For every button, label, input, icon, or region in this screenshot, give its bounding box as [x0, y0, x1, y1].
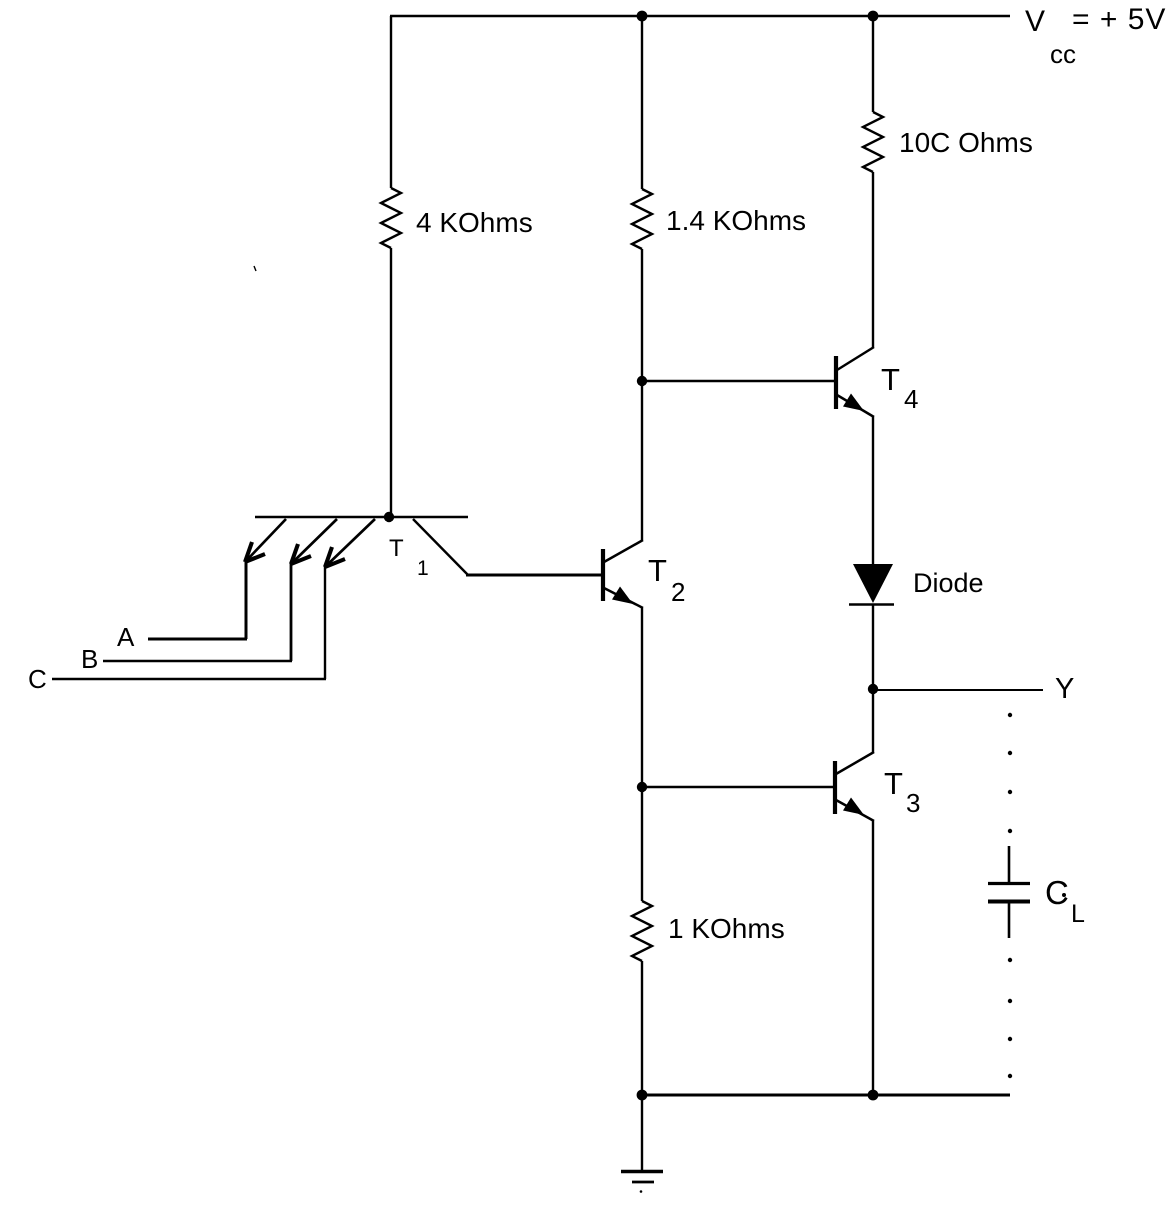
junction bottom rail / right column	[868, 1090, 879, 1101]
junction top rail / right column	[868, 11, 879, 22]
svg-text:B: B	[81, 644, 98, 674]
svg-text:T: T	[881, 362, 900, 397]
wire T3 emitter to bottom rail	[872, 821, 874, 1095]
ground	[621, 1095, 663, 1193]
wire middle column upper	[641, 16, 643, 189]
wire middle column to T2 collector	[641, 249, 643, 540]
svg-text:V: V	[1025, 5, 1045, 38]
resistor R4 1 KOhms	[632, 901, 652, 961]
resistor R2 1.4 KOhms	[632, 189, 652, 249]
resistor R1 4 KOhms	[381, 188, 401, 248]
wire T4 emitter to diode	[872, 417, 874, 565]
svg-text:Diode: Diode	[913, 568, 984, 598]
wire left column upper	[390, 16, 392, 188]
transistor T3	[835, 752, 920, 821]
svg-text:A: A	[117, 622, 135, 652]
svg-text:Y: Y	[1055, 673, 1074, 705]
svg-text:T: T	[648, 553, 667, 588]
svg-text:L: L	[1071, 900, 1085, 928]
wire right column to T4 collector	[872, 172, 874, 347]
svg-text:= + 5V: = + 5V	[1072, 3, 1166, 36]
svg-text:1: 1	[417, 557, 429, 580]
wire middle column T2 emitter down	[641, 608, 643, 901]
junction middle column / T4 base	[637, 376, 647, 386]
capacitor CL dotted connection lower	[1008, 958, 1012, 1078]
wire middle column to bottom rail	[641, 961, 643, 1095]
junction node Y	[868, 684, 878, 694]
wire T1 collector to T2 base	[466, 574, 601, 577]
wire left column lower	[390, 248, 392, 517]
emitter 3 of T1 (input C)	[325, 519, 375, 679]
transistor T2	[603, 540, 685, 608]
stray mark	[254, 266, 256, 271]
label Vcc = +5V	[1025, 3, 1166, 69]
junction top rail / middle column	[637, 11, 648, 22]
capacitor CL	[988, 846, 1030, 938]
wire input C	[52, 678, 326, 680]
capacitor CL dotted connection upper	[1008, 713, 1012, 833]
emitter 1 of T1 (input A)	[245, 519, 286, 639]
svg-text:2: 2	[671, 577, 685, 607]
svg-text:T: T	[389, 535, 404, 562]
wire T4 base from middle column	[642, 380, 834, 382]
wire right column upper	[872, 16, 874, 112]
wire Vcc top rail	[390, 15, 1010, 17]
wire T3 base from middle column	[642, 786, 833, 788]
svg-text:T: T	[884, 766, 903, 801]
diode D1	[849, 564, 894, 605]
transistor T4	[836, 347, 918, 417]
label CL	[1045, 874, 1085, 928]
wire bottom rail	[641, 1094, 1010, 1097]
emitter 2 of T1 (input B)	[291, 519, 337, 661]
svg-text:C: C	[1045, 874, 1069, 911]
svg-text:cc: cc	[1050, 39, 1076, 69]
svg-text:1 KOhms: 1 KOhms	[668, 913, 785, 944]
wire input A	[148, 638, 247, 641]
svg-text:4: 4	[904, 384, 918, 414]
svg-text:C: C	[28, 664, 47, 694]
junction middle column / T3 base	[637, 782, 647, 792]
resistor R3 100 Ohms	[863, 112, 883, 172]
transistor T1 multi-emitter	[255, 512, 468, 580]
wire node Y output	[873, 689, 1043, 691]
wire diode to node Y	[872, 604, 874, 753]
svg-text:4 KOhms: 4 KOhms	[416, 207, 533, 238]
junction bottom rail / middle column	[637, 1090, 648, 1101]
svg-text:3: 3	[906, 788, 920, 818]
svg-text:1.4 KOhms: 1.4 KOhms	[666, 205, 806, 236]
svg-text:10C Ohms: 10C Ohms	[899, 127, 1033, 158]
wire T1 collector diagonal	[413, 519, 468, 575]
wire input B	[103, 660, 292, 662]
